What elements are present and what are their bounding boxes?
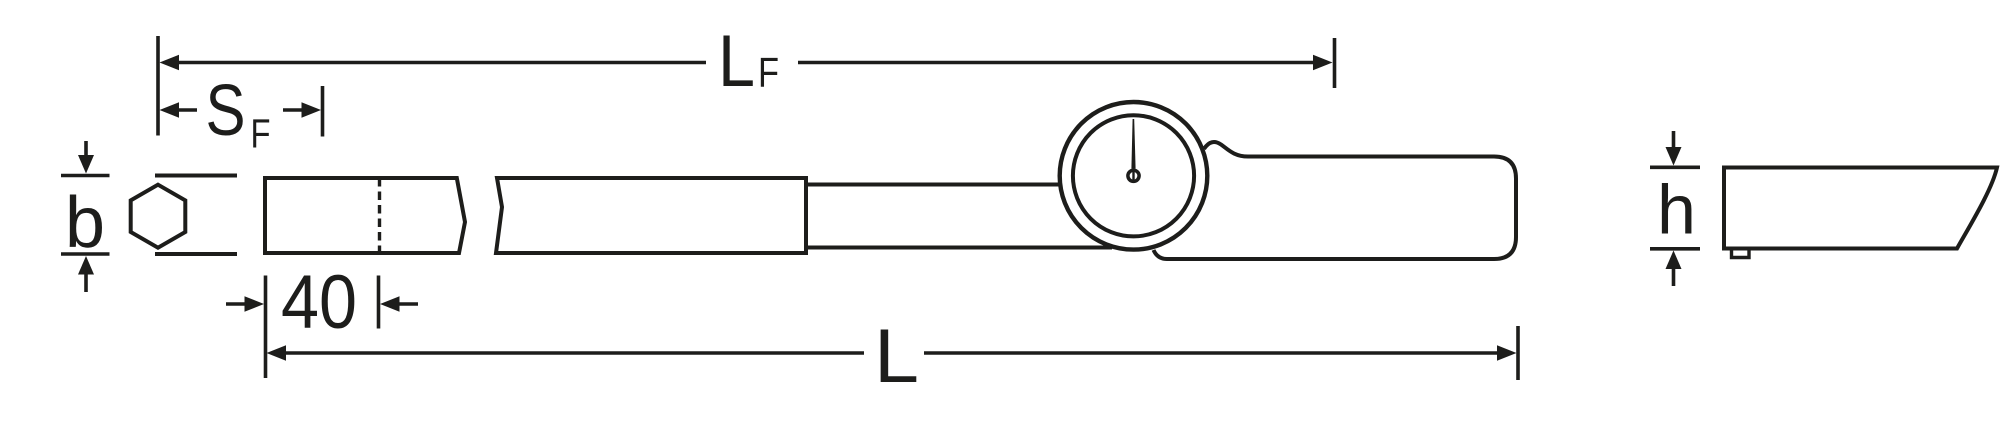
dimension h up arrow xyxy=(1672,268,1676,286)
dimension SF line right tail xyxy=(283,108,305,112)
dimension 40 extension tick right xyxy=(377,276,381,329)
dimension LF arrowhead left xyxy=(160,55,180,71)
svg-text:L: L xyxy=(718,21,755,102)
dimension 40 right arrow xyxy=(397,302,418,306)
dimension L line right segment xyxy=(924,351,1499,355)
dimension b down arrow xyxy=(84,141,88,157)
dimension LF arrowhead right xyxy=(1313,55,1333,71)
dimension b bottom tick xyxy=(61,252,110,256)
dimension L arrowhead left xyxy=(267,345,287,361)
side view tab xyxy=(1732,250,1750,258)
handle xyxy=(1154,142,1517,259)
dimension LF extension tick right xyxy=(1333,38,1337,88)
label h xyxy=(1657,171,1696,249)
dial inner circle xyxy=(1073,115,1194,236)
dial outer circle xyxy=(1060,102,1208,250)
dimension h top tick xyxy=(1650,166,1700,170)
label LF xyxy=(718,21,779,102)
hex drive xyxy=(131,185,186,248)
beam segment 1 xyxy=(265,178,465,253)
label SF xyxy=(206,71,271,157)
label 40 xyxy=(281,260,357,345)
dial hub xyxy=(1128,170,1139,181)
dimension LF line left segment xyxy=(176,61,706,65)
dimension h down arrow xyxy=(1672,131,1676,148)
svg-text:F: F xyxy=(251,111,271,157)
svg-text:40: 40 xyxy=(281,260,357,345)
socket top line xyxy=(155,174,237,178)
beam segment 1 dashed line xyxy=(378,178,381,253)
dimension 40 / L shared extension tick xyxy=(264,276,268,379)
svg-text:S: S xyxy=(206,71,246,151)
dimension LF line right segment xyxy=(798,61,1316,65)
dial needle xyxy=(1131,119,1135,169)
dimension SF line left tail xyxy=(176,108,197,112)
dimension 40 left arrow xyxy=(226,302,248,306)
dimension h bottom tick xyxy=(1650,247,1700,251)
narrow shaft top line xyxy=(808,183,1075,187)
svg-text:h: h xyxy=(1657,171,1696,249)
dimension b up arrow xyxy=(84,274,88,292)
svg-text:F: F xyxy=(758,49,779,96)
dimension SF arrowhead right xyxy=(302,102,322,118)
dimension b top tick xyxy=(61,174,110,178)
socket bottom line xyxy=(155,252,237,256)
dimension LF extension tick left xyxy=(156,36,160,136)
label b xyxy=(65,183,105,263)
dimension L line left segment xyxy=(283,351,864,355)
dimension L extension tick right xyxy=(1516,326,1520,380)
beam segment 2 xyxy=(496,178,806,253)
svg-text:b: b xyxy=(65,183,105,263)
dimension SF arrowhead left xyxy=(160,102,180,118)
svg-text:L: L xyxy=(874,314,919,399)
narrow shaft bottom line xyxy=(808,246,1112,250)
side view body xyxy=(1724,168,1997,249)
dimension L arrowhead right xyxy=(1497,345,1517,361)
dimension SF extension tick right xyxy=(321,86,325,137)
label L xyxy=(874,314,919,399)
dial needle tail xyxy=(1132,171,1134,182)
